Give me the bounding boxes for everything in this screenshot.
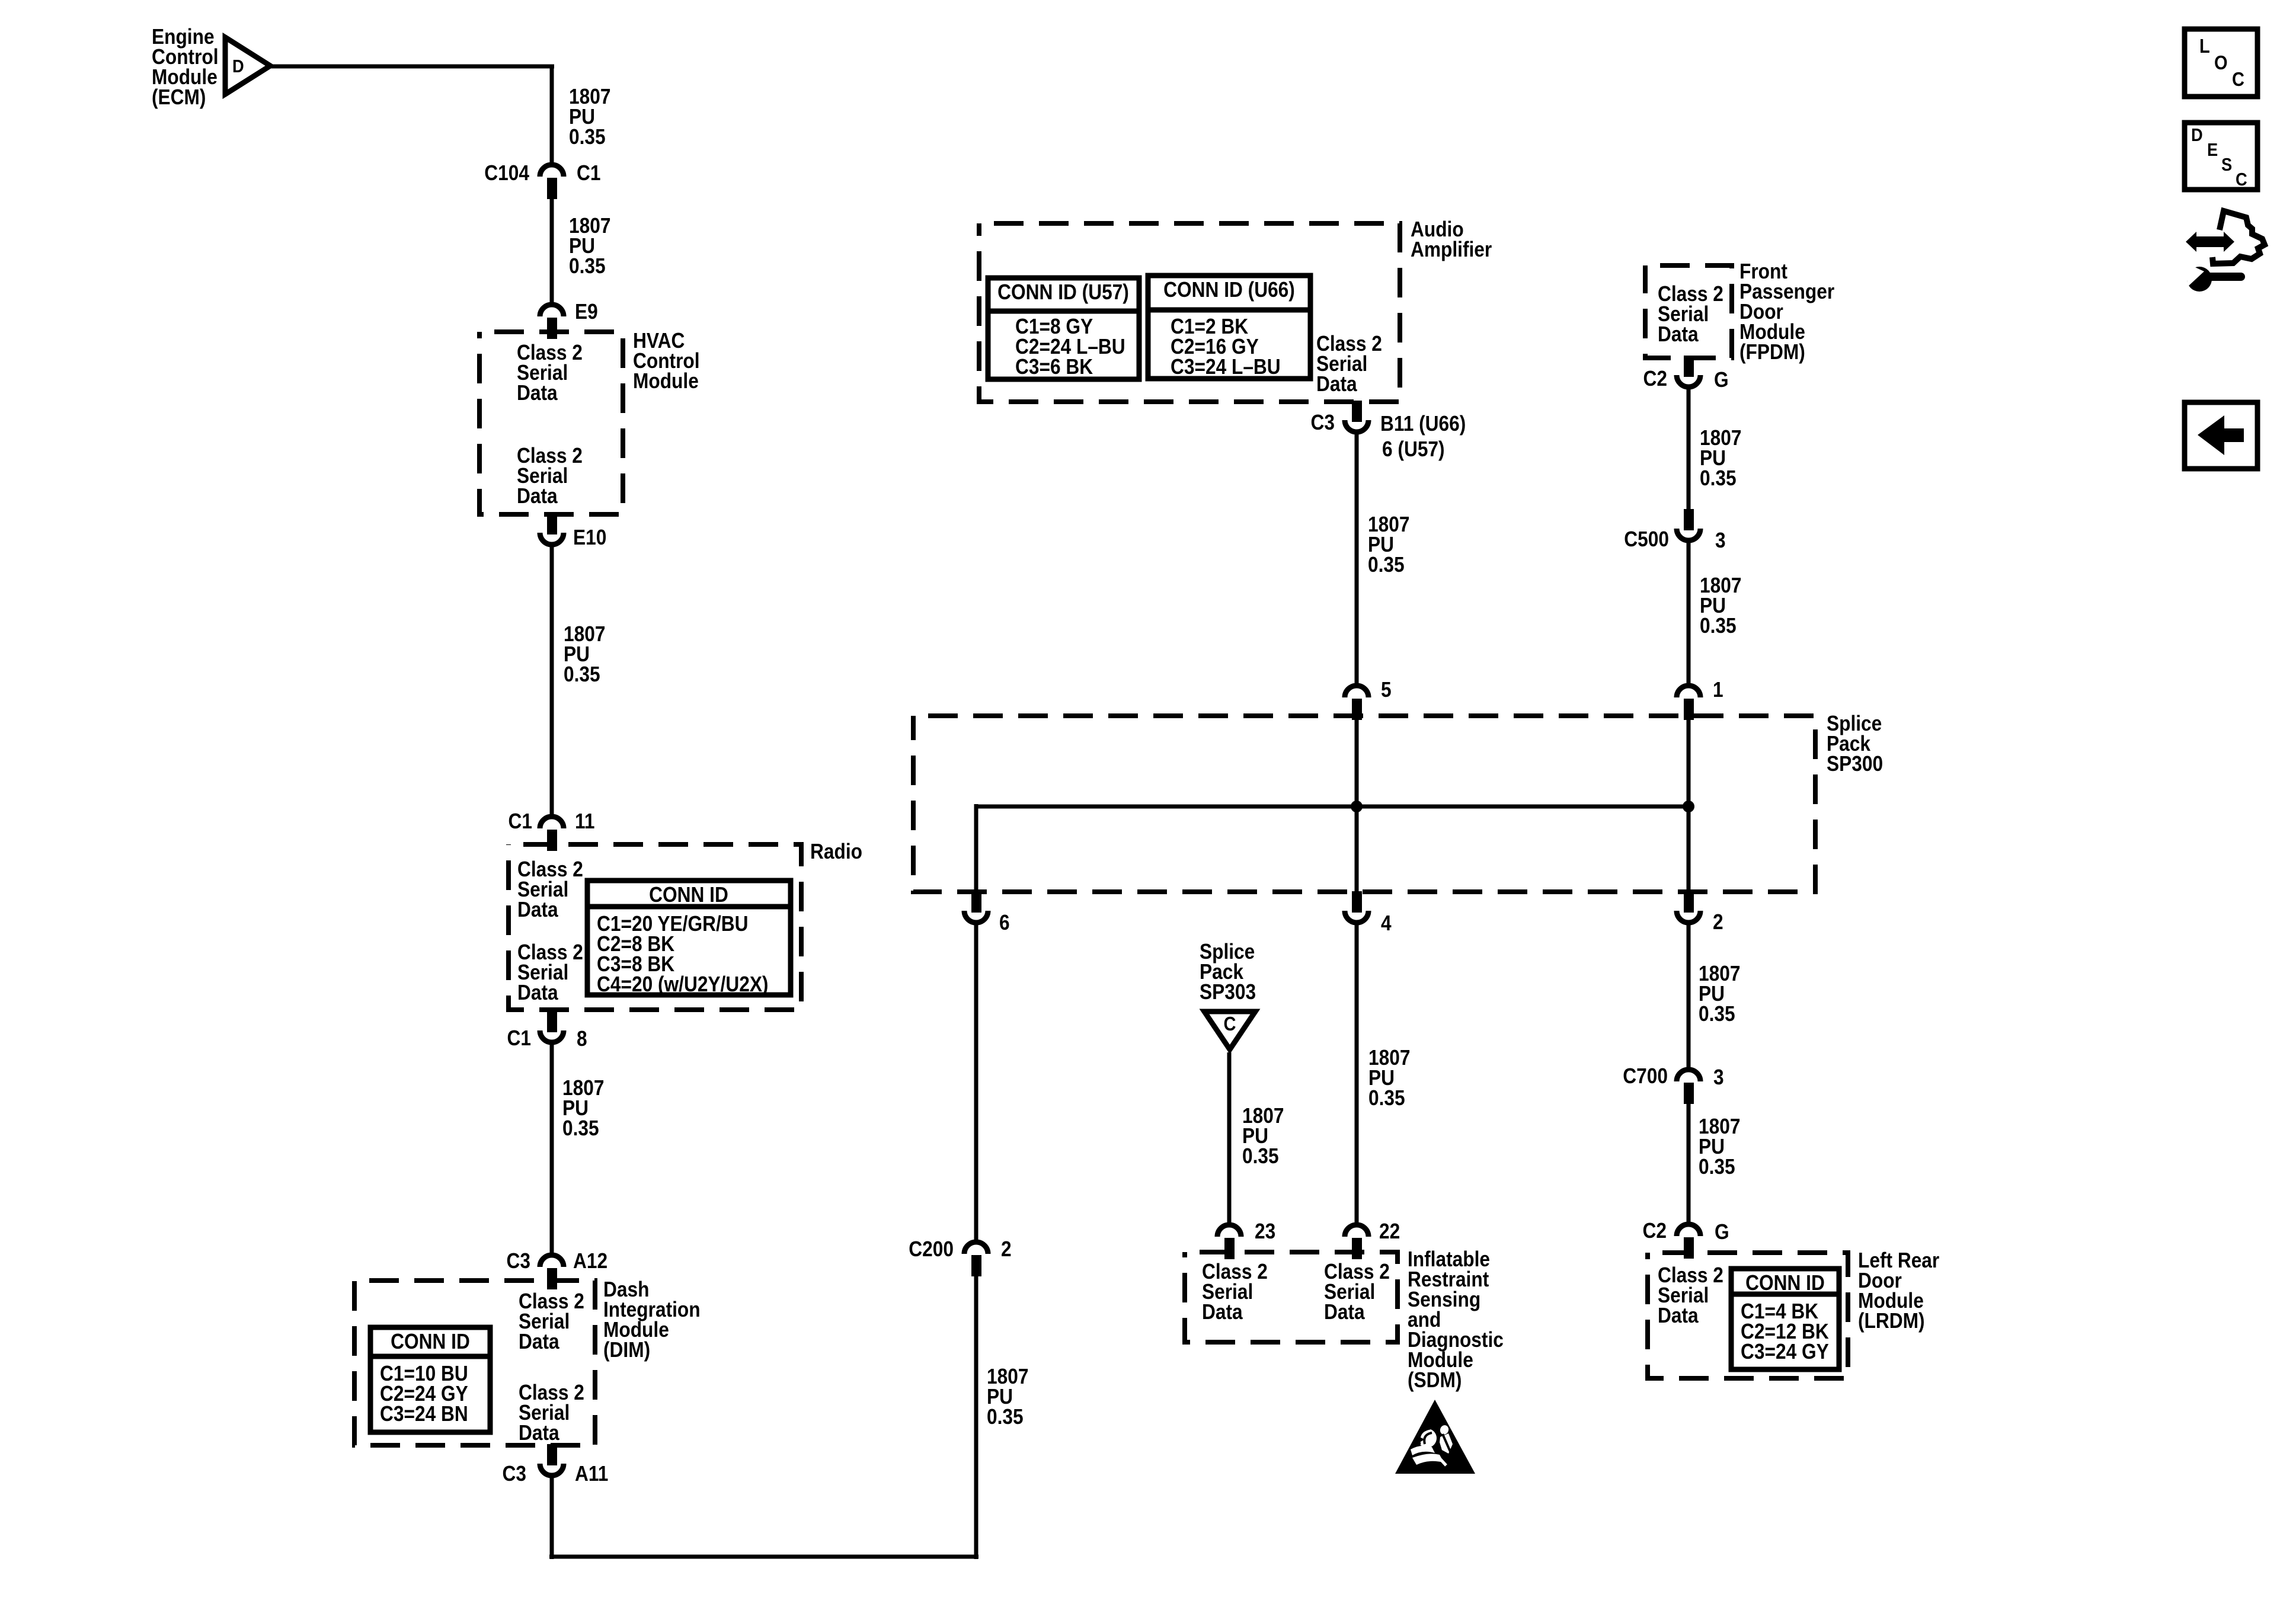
- svg-text:C3=24 L–BU: C3=24 L–BU: [1171, 355, 1281, 379]
- svg-text:C3=24 GY: C3=24 GY: [1741, 1340, 1829, 1363]
- svg-text:11: 11: [575, 809, 594, 833]
- svg-text:0.35: 0.35: [569, 125, 606, 149]
- svg-text:0.35: 0.35: [562, 1116, 599, 1140]
- svg-text:0.35: 0.35: [1699, 1002, 1735, 1026]
- svg-text:E10: E10: [573, 526, 606, 549]
- svg-text:0.35: 0.35: [1700, 614, 1737, 638]
- svg-text:G: G: [1715, 1220, 1729, 1244]
- svg-text:C3: C3: [503, 1462, 526, 1486]
- svg-text:0.35: 0.35: [1368, 553, 1405, 577]
- svg-text:2: 2: [1713, 910, 1723, 934]
- svg-text:E9: E9: [575, 300, 598, 324]
- svg-text:C: C: [2236, 169, 2247, 190]
- svg-text:C1: C1: [509, 809, 532, 833]
- svg-text:6: 6: [999, 911, 1010, 934]
- svg-text:0.35: 0.35: [1700, 466, 1737, 490]
- svg-text:Data: Data: [517, 381, 558, 405]
- svg-text:C: C: [2232, 68, 2244, 90]
- svg-text:Data: Data: [1202, 1300, 1243, 1324]
- svg-text:C: C: [1224, 1013, 1236, 1035]
- svg-text:Data: Data: [1658, 322, 1699, 346]
- svg-text:C1: C1: [507, 1026, 531, 1050]
- svg-text:22: 22: [1379, 1219, 1400, 1243]
- svg-text:(FPDM): (FPDM): [1739, 340, 1805, 364]
- svg-text:A12: A12: [573, 1249, 607, 1273]
- svg-text:Data: Data: [517, 981, 559, 1004]
- svg-text:C500: C500: [1624, 527, 1669, 551]
- svg-text:0.35: 0.35: [1699, 1155, 1735, 1179]
- svg-text:Module: Module: [633, 369, 699, 393]
- svg-text:(SDM): (SDM): [1408, 1368, 1462, 1392]
- svg-text:1: 1: [1713, 678, 1723, 702]
- svg-text:C2: C2: [1643, 1219, 1667, 1243]
- svg-text:C3: C3: [507, 1249, 530, 1273]
- svg-text:CONN ID (U66): CONN ID (U66): [1163, 278, 1295, 302]
- svg-text:C3=6 BK: C3=6 BK: [1015, 355, 1093, 379]
- svg-text:SP303: SP303: [1200, 980, 1256, 1004]
- svg-text:0.35: 0.35: [564, 662, 600, 686]
- svg-text:CONN ID (U57): CONN ID (U57): [997, 280, 1129, 304]
- svg-text:Radio: Radio: [810, 840, 862, 863]
- svg-text:CONN ID: CONN ID: [649, 883, 728, 907]
- svg-text:G: G: [1714, 368, 1729, 392]
- svg-text:0.35: 0.35: [1242, 1144, 1279, 1168]
- svg-text:Data: Data: [1658, 1304, 1699, 1327]
- svg-text:6 (U57): 6 (U57): [1382, 437, 1445, 461]
- svg-text:Data: Data: [517, 898, 559, 921]
- svg-text:C3=24 BN: C3=24 BN: [380, 1402, 468, 1426]
- svg-text:Data: Data: [1324, 1300, 1366, 1324]
- svg-text:CONN ID: CONN ID: [391, 1330, 470, 1353]
- svg-text:Data: Data: [517, 484, 558, 508]
- svg-text:C200: C200: [909, 1237, 954, 1261]
- svg-text:B11 (U66): B11 (U66): [1380, 412, 1466, 436]
- svg-text:S: S: [2221, 155, 2232, 175]
- svg-text:O: O: [2214, 52, 2228, 73]
- svg-text:0.35: 0.35: [1368, 1086, 1405, 1110]
- svg-text:Data: Data: [519, 1421, 560, 1445]
- svg-text:3: 3: [1715, 529, 1726, 552]
- svg-text:D: D: [232, 56, 244, 76]
- svg-text:Amplifier: Amplifier: [1411, 238, 1492, 261]
- svg-text:E: E: [2207, 140, 2218, 160]
- svg-text:C4=20 (w/U2Y/U2X): C4=20 (w/U2Y/U2X): [597, 972, 768, 996]
- svg-text:(DIM): (DIM): [603, 1338, 650, 1362]
- svg-text:CONN ID: CONN ID: [1745, 1271, 1825, 1295]
- svg-text:23: 23: [1255, 1219, 1275, 1243]
- svg-text:5: 5: [1381, 678, 1392, 702]
- svg-text:SP300: SP300: [1827, 752, 1883, 776]
- svg-text:3: 3: [1713, 1065, 1724, 1089]
- svg-text:8: 8: [577, 1027, 587, 1051]
- svg-text:C2: C2: [1643, 367, 1667, 391]
- svg-text:C1: C1: [577, 161, 600, 185]
- svg-text:0.35: 0.35: [987, 1405, 1024, 1429]
- svg-text:D: D: [2191, 125, 2203, 145]
- svg-text:Data: Data: [519, 1330, 560, 1353]
- svg-text:C104: C104: [484, 161, 529, 185]
- svg-text:(ECM): (ECM): [152, 85, 206, 109]
- svg-text:Data: Data: [1316, 372, 1358, 396]
- svg-text:0.35: 0.35: [569, 254, 606, 278]
- svg-text:2: 2: [1001, 1237, 1012, 1261]
- svg-text:4: 4: [1381, 911, 1392, 935]
- svg-text:A11: A11: [575, 1462, 608, 1486]
- svg-text:C700: C700: [1623, 1064, 1668, 1088]
- svg-text:L: L: [2199, 35, 2210, 57]
- svg-text:C3: C3: [1311, 411, 1335, 434]
- svg-text:(LRDM): (LRDM): [1858, 1309, 1925, 1333]
